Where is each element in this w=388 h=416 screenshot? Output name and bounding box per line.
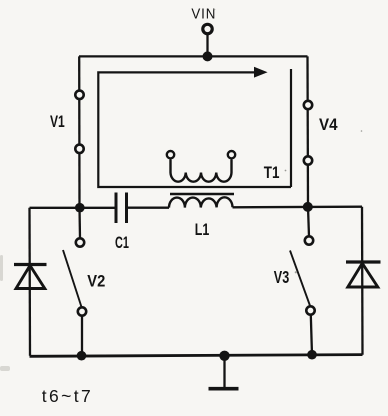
svg-text:V3: V3 (274, 268, 289, 288)
svg-text:V2: V2 (87, 273, 105, 291)
svg-text:VIN: VIN (191, 6, 216, 23)
svg-text:t6~t7: t6~t7 (42, 386, 93, 406)
svg-text:L1: L1 (195, 221, 209, 239)
svg-text:T1: T1 (264, 164, 280, 183)
svg-text:V1: V1 (50, 113, 65, 131)
svg-text:V4: V4 (319, 115, 338, 134)
svg-text:C1: C1 (115, 234, 129, 253)
